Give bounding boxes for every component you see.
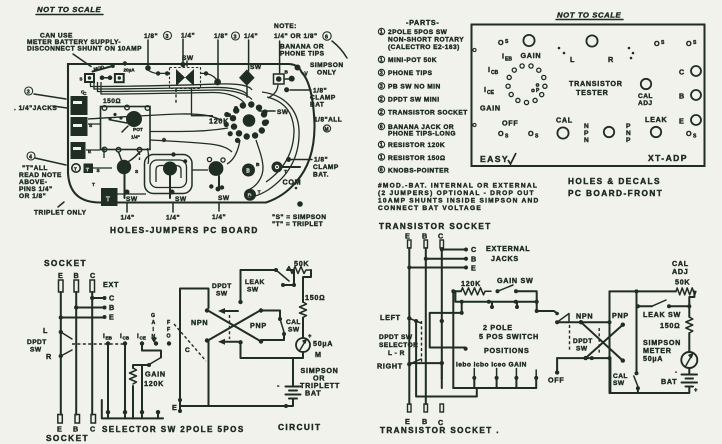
svg-text:PB SW NO MIN: PB SW NO MIN	[388, 84, 441, 91]
svg-text:G: G	[151, 313, 155, 319]
svg-text:C: C	[679, 68, 685, 77]
svg-text:B: B	[471, 255, 477, 264]
svg-text:SW: SW	[30, 347, 42, 354]
svg-text:O: O	[686, 129, 692, 138]
svg-text:SW: SW	[288, 327, 300, 334]
svg-text:-PARTS-: -PARTS-	[406, 18, 440, 27]
svg-text:TRANSISTOR SOCKET: TRANSISTOR SOCKET	[388, 110, 468, 117]
svg-text:SW: SW	[250, 64, 262, 71]
svg-text:S: S	[80, 77, 83, 82]
svg-text:SOCKET: SOCKET	[44, 258, 87, 268]
svg-text:CB: CB	[123, 336, 130, 341]
svg-text:HOLES & DECALS: HOLES & DECALS	[568, 176, 661, 186]
svg-text:N: N	[626, 130, 631, 137]
svg-text:XT-ADP: XT-ADP	[648, 153, 688, 163]
svg-text:B: B	[109, 303, 115, 312]
svg-text:SW: SW	[126, 196, 138, 203]
svg-text:1/8"ALL: 1/8"ALL	[314, 117, 342, 124]
svg-text:SW: SW	[247, 287, 259, 294]
svg-text:SELECTOR SW 2POLE 5POS: SELECTOR SW 2POLE 5POS	[102, 425, 245, 434]
svg-text:B: B	[256, 162, 260, 168]
svg-text:CAL: CAL	[638, 93, 653, 100]
svg-text:"T"ALL: "T"ALL	[22, 165, 48, 172]
svg-text:150Ω: 150Ω	[103, 98, 121, 105]
svg-text:EASY: EASY	[480, 154, 509, 164]
svg-text:A: A	[152, 320, 156, 326]
svg-text:NOTE:: NOTE:	[274, 23, 297, 30]
svg-text:CB: CB	[491, 70, 499, 76]
svg-text:Iebo Icbo Iceo GAIN: Iebo Icbo Iceo GAIN	[456, 362, 527, 369]
svg-text:TRANSISTOR SOCKET .: TRANSISTOR SOCKET .	[380, 426, 500, 435]
svg-text:+: +	[308, 334, 312, 340]
svg-text:BAT.: BAT.	[313, 172, 329, 179]
svg-text:LEAK: LEAK	[245, 279, 265, 286]
svg-text:PNP: PNP	[250, 321, 267, 330]
svg-text:CE: CE	[487, 90, 495, 96]
svg-text:6: 6	[380, 168, 383, 174]
svg-text:R: R	[46, 352, 52, 361]
svg-text:SW: SW	[175, 196, 187, 203]
svg-text:E: E	[172, 403, 178, 412]
svg-text:BAT: BAT	[305, 389, 321, 398]
svg-text:3: 3	[234, 35, 237, 41]
svg-text:C: C	[90, 271, 96, 280]
svg-text:DISCONNECT SHUNT ON 10AMP: DISCONNECT SHUNT ON 10AMP	[27, 46, 142, 53]
svg-text:"S" = SIMPSON: "S" = SIMPSON	[272, 214, 326, 221]
svg-text:(CALECTRO E2-163): (CALECTRO E2-163)	[388, 44, 460, 51]
svg-text:3: 3	[166, 34, 169, 40]
svg-text:ADJ: ADJ	[672, 267, 688, 276]
svg-text:(2 JUMPERS) OPTIONAL - DROP OU: (2 JUMPERS) OPTIONAL - DROP OUT	[378, 190, 535, 197]
svg-text:B: B	[246, 169, 250, 175]
svg-text:PHONE TIPS-LONG: PHONE TIPS-LONG	[388, 131, 456, 138]
svg-text:SIMPSON: SIMPSON	[310, 62, 344, 69]
svg-text:O: O	[167, 334, 171, 340]
svg-text:. 1/4"JACKS: . 1/4"JACKS	[14, 105, 57, 112]
svg-text:L: L	[43, 326, 48, 335]
svg-text:DPDT: DPDT	[573, 338, 593, 345]
svg-text:C: C	[185, 347, 190, 354]
svg-text:RESISTOR 150Ω: RESISTOR 150Ω	[388, 155, 445, 162]
svg-text:DPDT SW: DPDT SW	[379, 334, 413, 341]
svg-text:1/4": 1/4"	[212, 214, 226, 221]
svg-text:B: B	[285, 70, 289, 76]
svg-text:DPDT SW MINI: DPDT SW MINI	[388, 97, 440, 104]
svg-text:EXT: EXT	[103, 280, 119, 289]
svg-text:1/8": 1/8"	[313, 88, 327, 95]
svg-text:M: M	[315, 350, 322, 359]
svg-text:P: P	[584, 130, 589, 137]
svg-text:TRANSISTOR SOCKET: TRANSISTOR SOCKET	[379, 222, 492, 231]
svg-text:SELECTOR: SELECTOR	[379, 342, 418, 349]
svg-text:5 POS SWITCH: 5 POS SWITCH	[479, 332, 539, 341]
svg-text:C: C	[109, 294, 115, 303]
svg-text:2: 2	[380, 97, 383, 103]
svg-text:R: R	[608, 55, 614, 64]
svg-text:+: +	[694, 388, 698, 394]
svg-text:1/8": 1/8"	[314, 157, 328, 164]
svg-text:B: B	[679, 92, 685, 101]
svg-text:GAIN SW: GAIN SW	[497, 276, 533, 285]
svg-text:GAIN: GAIN	[521, 51, 542, 60]
svg-text:DPDT: DPDT	[27, 339, 47, 346]
svg-text:NPN: NPN	[576, 312, 593, 321]
svg-text:O: O	[686, 39, 692, 48]
svg-text:NOT TO SCALE: NOT TO SCALE	[557, 11, 622, 20]
svg-text:150Ω: 150Ω	[305, 293, 325, 302]
svg-text:LEAK: LEAK	[645, 115, 667, 124]
svg-text:GAIN: GAIN	[480, 104, 501, 113]
svg-text:CLAMP: CLAMP	[313, 164, 339, 171]
svg-text:NON-SHORT ROTARY: NON-SHORT ROTARY	[388, 37, 464, 44]
svg-text:B: B	[422, 232, 428, 241]
svg-text:E: E	[471, 264, 477, 273]
svg-text:N: N	[584, 137, 589, 144]
svg-text:SW: SW	[576, 346, 588, 353]
svg-text:LEFT: LEFT	[380, 313, 401, 322]
svg-text:-: -	[675, 370, 677, 376]
svg-text:3: 3	[380, 71, 383, 77]
svg-text:NOT TO SCALE: NOT TO SCALE	[37, 5, 102, 14]
svg-text:P: P	[626, 137, 631, 144]
svg-text:CAL: CAL	[556, 116, 573, 125]
svg-text:O: O	[498, 38, 504, 47]
svg-text:TESTER: TESTER	[576, 88, 609, 97]
svg-text:2: 2	[380, 110, 383, 116]
svg-text:POSITIONS: POSITIONS	[484, 346, 529, 355]
svg-text:DPDT: DPDT	[212, 283, 232, 290]
svg-text:3: 3	[27, 90, 30, 96]
svg-text:3: 3	[380, 84, 383, 90]
svg-text:F: F	[167, 320, 170, 326]
svg-text:E: E	[679, 117, 685, 126]
svg-text:1/4": 1/4"	[121, 215, 135, 222]
svg-text:50µA: 50µA	[643, 354, 663, 363]
svg-text:1/8": 1/8"	[214, 33, 228, 40]
svg-text:10AMP SHUNTS INSIDE SIMPSON AN: 10AMP SHUNTS INSIDE SIMPSON AND	[378, 198, 540, 205]
svg-text:OFF: OFF	[502, 119, 518, 128]
svg-text:TRIPLET ONLY: TRIPLET ONLY	[34, 210, 87, 217]
svg-text:P: P	[626, 123, 631, 130]
svg-text:1: 1	[380, 155, 383, 161]
svg-text:L - R: L - R	[388, 350, 405, 357]
svg-text:E: E	[58, 271, 64, 280]
svg-text:RIGHT: RIGHT	[377, 362, 403, 371]
svg-text:4: 4	[29, 155, 32, 161]
svg-text:ONLY: ONLY	[317, 70, 337, 77]
svg-text:EB: EB	[106, 336, 113, 341]
svg-text:BAT: BAT	[661, 377, 677, 386]
svg-text:O: O	[498, 129, 504, 138]
svg-text:1/4": 1/4"	[131, 135, 140, 141]
svg-text:O: O	[528, 129, 534, 138]
svg-text:T: T	[106, 197, 110, 203]
svg-text:T: T	[86, 167, 89, 173]
svg-text:EB: EB	[505, 57, 512, 63]
svg-text:C: C	[90, 425, 96, 434]
svg-text:50K: 50K	[675, 278, 690, 287]
svg-text:PC BOARD-FRONT: PC BOARD-FRONT	[568, 188, 663, 198]
svg-text:SW: SW	[218, 195, 230, 202]
svg-text:PINS 1/4": PINS 1/4"	[19, 186, 53, 193]
svg-text:JACKS: JACKS	[491, 254, 519, 263]
svg-text:CONNECT BAT VOLTAGE: CONNECT BAT VOLTAGE	[378, 205, 482, 212]
svg-text:E: E	[405, 232, 411, 241]
svg-text:50µA: 50µA	[313, 339, 333, 348]
svg-text:COM: COM	[283, 178, 302, 187]
svg-text:POT: POT	[133, 127, 143, 133]
svg-text:150Ω: 150Ω	[660, 321, 680, 330]
svg-text:CLAMP: CLAMP	[310, 95, 336, 102]
svg-text:OR 1/8": OR 1/8"	[19, 193, 46, 200]
svg-text:E: E	[109, 313, 115, 322]
svg-text:120K: 120K	[209, 117, 229, 126]
svg-text:OFF: OFF	[548, 376, 564, 385]
svg-text:C: C	[438, 232, 444, 241]
svg-text:F: F	[167, 327, 170, 333]
svg-text:L: L	[570, 55, 575, 64]
svg-text:SOCKET: SOCKET	[46, 433, 89, 443]
svg-text:NPN: NPN	[191, 318, 208, 327]
svg-text:N: N	[584, 123, 589, 130]
svg-text:C: C	[471, 245, 477, 254]
svg-text:1/4": 1/4"	[244, 33, 258, 40]
svg-text:ADJ: ADJ	[638, 100, 653, 107]
svg-text:120K: 120K	[144, 379, 164, 388]
svg-text:20µA: 20µA	[124, 68, 136, 73]
svg-text:B: B	[74, 271, 80, 280]
svg-text:PNP: PNP	[612, 311, 629, 320]
svg-text:"T" = TRIPLET: "T" = TRIPLET	[272, 221, 323, 228]
svg-text:O: O	[654, 39, 660, 48]
svg-text:TRANSISTOR: TRANSISTOR	[569, 79, 623, 88]
svg-text:SW: SW	[613, 380, 625, 387]
svg-text:T: T	[74, 167, 77, 172]
svg-text:120K: 120K	[461, 279, 481, 288]
svg-text:2 POLE: 2 POLE	[483, 323, 513, 332]
svg-text:+V: +V	[302, 72, 309, 78]
svg-text:6: 6	[380, 125, 383, 131]
svg-text:E: E	[405, 417, 411, 426]
svg-text:MINI-POT 50K: MINI-POT 50K	[388, 57, 437, 64]
svg-text:CAL: CAL	[286, 319, 301, 326]
svg-text:CE: CE	[140, 336, 146, 341]
svg-text:BAT: BAT	[310, 102, 324, 109]
svg-text:1/4": 1/4"	[166, 215, 180, 222]
svg-text:1/8": 1/8"	[144, 33, 158, 40]
svg-text:BANANA OR: BANANA OR	[280, 44, 324, 51]
svg-text:T: T	[92, 182, 95, 188]
svg-text:6: 6	[325, 35, 328, 41]
svg-text:CAL: CAL	[613, 373, 628, 380]
svg-text:READ NOTE: READ NOTE	[19, 172, 62, 179]
svg-text:2POLE 5POS SW: 2POLE 5POS SW	[388, 29, 448, 36]
svg-text:KNOBS-POINTER: KNOBS-POINTER	[388, 168, 449, 175]
svg-text:1: 1	[380, 58, 383, 64]
svg-text:PHONE TIPS: PHONE TIPS	[388, 70, 433, 77]
svg-text:1/4" OR 1/8": 1/4" OR 1/8"	[274, 33, 318, 40]
svg-text:EXTERNAL: EXTERNAL	[486, 244, 530, 253]
svg-text:#MOD.-BAT. INTERNAL OR EXTERNA: #MOD.-BAT. INTERNAL OR EXTERNAL	[378, 183, 538, 190]
svg-text:HOLES-JUMPERS PC BOARD: HOLES-JUMPERS PC BOARD	[110, 225, 259, 235]
svg-text:GAIN: GAIN	[145, 370, 166, 379]
svg-text:B: B	[422, 417, 428, 426]
svg-text:RESISTOR 120K: RESISTOR 120K	[388, 142, 445, 149]
svg-text:LEAK SW: LEAK SW	[643, 310, 681, 319]
svg-text:CIRCUIT: CIRCUIT	[278, 422, 321, 432]
svg-text:SW: SW	[216, 291, 228, 298]
svg-text:M: M	[325, 127, 329, 133]
svg-text:ABOVE-: ABOVE-	[19, 179, 47, 186]
svg-text:SW: SW	[182, 55, 194, 62]
svg-text:1: 1	[380, 143, 383, 149]
svg-text:PHONE TIPS: PHONE TIPS	[280, 51, 325, 58]
svg-text:1: 1	[380, 30, 383, 36]
